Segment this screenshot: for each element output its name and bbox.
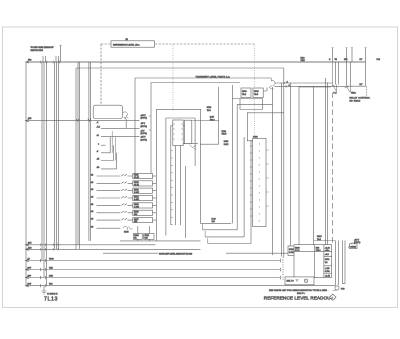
connector stub P3 above bus A [60, 46, 62, 63]
svg-text:P50: P50 [341, 288, 344, 290]
svg-text:U730: U730 [254, 91, 259, 93]
nested loop bottom rung 4 [208, 243, 251, 245]
nested loop L1 [157, 109, 201, 241]
table column line 1 [314, 245, 316, 278]
wire vertical x290 [290, 83, 292, 247]
connector arrow V1 on mid wire [76, 119, 79, 122]
svg-text:(DCPL): (DCPL) [141, 117, 148, 119]
wire box bottoms link [183, 143, 198, 145]
ic U730A box [241, 88, 251, 98]
node A1 arrow label [284, 82, 286, 84]
lamp P50 circle [335, 286, 339, 290]
svg-text:TA-5: TA-5 [207, 109, 211, 112]
wire vertical bus x78 [77, 62, 79, 245]
wire dashed x366 [366, 86, 368, 98]
wire ladder row out 198 [153, 197, 157, 199]
svg-text:2-7-6: 2-7-6 [295, 250, 299, 252]
resistor R751 bottom box [144, 234, 154, 240]
svg-text:+6.4B: +6.4B [325, 276, 331, 278]
loop rectangle R2 top [135, 77, 271, 79]
svg-text:7L13: 7L13 [44, 297, 58, 303]
wire ladder row out 212.8 [153, 212, 157, 214]
screw symbol in MNL box [304, 279, 307, 282]
svg-text:TB-1: TB-1 [242, 94, 246, 96]
wire staircase step 2 [101, 145, 113, 160]
wire ladder row 8 [97, 227, 121, 229]
nested loop top rung right [237, 105, 272, 230]
svg-text:TB-5: TB-5 [254, 94, 258, 96]
wire ladder row 4 [97, 196, 133, 198]
resistor R746 [133, 210, 153, 215]
connector pins J1 on bottom rows [40, 259, 46, 262]
wire stub to R751 [149, 226, 151, 241]
svg-text:-60: -60 [91, 211, 94, 213]
connector arcs row A10 [40, 248, 58, 251]
wire driver line A2 [275, 85, 347, 87]
nested loop bottom rung 2 [202, 229, 237, 231]
readout box REFERENCE LEVEL dBm [111, 41, 155, 47]
resistor R750 bottom box [133, 234, 142, 240]
connector P701 right of bottom rows [279, 259, 282, 280]
svg-text:-20: -20 [91, 182, 94, 184]
nested loop right riser x272 [272, 87, 274, 255]
wire arrowhead mid horizontal [26, 119, 30, 121]
loop rectangle R1 right edge [283, 68, 285, 257]
switch S5 dashed shaft to pot [172, 44, 174, 110]
wire row B73 [26, 244, 156, 246]
wire vertical x185 [184, 166, 186, 238]
wire staircase riser x112 [111, 131, 113, 153]
node A2 arrow label [286, 85, 288, 87]
table column line 2 [323, 245, 325, 278]
ic U950 left pins [250, 146, 253, 216]
wire vertical bus x79.5 [79, 62, 81, 249]
wire row A10 [26, 248, 201, 250]
svg-text:S: S [329, 59, 331, 61]
svg-text:(DCPL): (DCPL) [141, 139, 148, 141]
ground mark in MNL box [296, 279, 299, 281]
svg-text:A7: A7 [28, 257, 30, 260]
resistor R744 [133, 195, 153, 200]
wire pair bottom close [342, 283, 345, 285]
wire ladder row 5 [97, 204, 133, 206]
wire ladder row out 205.4 [153, 204, 157, 206]
svg-text:TS4: TS4 [49, 284, 52, 286]
wire ladder row out 183.4 [153, 182, 157, 184]
svg-text:U730: U730 [207, 107, 212, 109]
resistor R910 box [288, 246, 298, 256]
switch S5 dashed vertical left [100, 44, 102, 105]
ground stub [43, 286, 45, 291]
loop rectangle R1 left edge [75, 68, 77, 250]
svg-text:-30: -30 [91, 189, 94, 191]
svg-text:-50: -50 [91, 204, 94, 206]
wire arrowhead left of bus A [26, 61, 30, 63]
potentiometer R700 rounded body [93, 105, 122, 118]
svg-text:(DCPL): (DCPL) [141, 133, 148, 135]
wire driver line A1 [275, 82, 333, 84]
wire vertical bus x46 [45, 62, 47, 286]
wire bottom row 1 [26, 259, 281, 261]
svg-text:13.7K: 13.7K [134, 185, 140, 187]
wire sub box under U730 [232, 99, 263, 110]
wire horizontal into x218 [200, 143, 219, 145]
svg-text:+15 V: +15 V [354, 240, 360, 242]
wire ladder row 3 [97, 189, 133, 191]
potentiometer R748 wiper symbols [123, 226, 133, 230]
wire bottom row 4 ground bus [26, 285, 336, 287]
svg-text:U950: U950 [253, 136, 258, 138]
svg-text:785-6: 785-6 [222, 134, 227, 136]
svg-text:Q-30: Q-30 [210, 117, 214, 119]
table header row line [294, 250, 332, 252]
svg-text:R908: R908 [295, 247, 300, 249]
svg-text:NOTE: REF LEVEL READOUT BD A10: NOTE: REF LEVEL READOUT BD A10 [159, 252, 192, 255]
ic U736 box [185, 120, 192, 144]
svg-text:DSB: DSB [49, 275, 54, 277]
loop rectangle R3 top [151, 82, 240, 84]
wire vertical pair x335 [335, 62, 338, 285]
svg-text:TB5w: TB5w [351, 93, 356, 95]
resistor R742 [133, 181, 153, 186]
svg-text:A5P: A5P [28, 274, 32, 277]
nested loop L2 [166, 118, 195, 236]
svg-text:U730: U730 [242, 91, 247, 93]
wire corner into U950 [247, 113, 283, 141]
resistor R743 [133, 188, 153, 193]
connector box MNL bottom [285, 277, 314, 285]
nested loop bottom rung 3 [205, 236, 244, 238]
transistor Q730 [269, 78, 275, 89]
wire bottom row 2 [26, 268, 281, 270]
wire ladder row 2 [97, 182, 133, 184]
connector stubs above bus A right [333, 48, 366, 86]
loop rectangle R1 top edge [76, 67, 284, 69]
svg-text:B W: B W [28, 284, 32, 286]
svg-text:1: 1 [332, 297, 333, 299]
wire R3 left drop [150, 83, 152, 174]
svg-text:D-DR: D-DR [289, 252, 294, 254]
wire vertical bus x89 [88, 62, 90, 241]
svg-text:500: 500 [145, 238, 148, 240]
wire ladder row 7 [97, 218, 133, 220]
svg-text:P10: P10 [377, 59, 380, 61]
wire under ladder [120, 240, 201, 242]
svg-text:-70: -70 [91, 219, 94, 221]
wire vertical x299 [298, 87, 300, 245]
switch S5 dashed line top [101, 43, 255, 45]
wire vertical bus x90.5 [89, 62, 91, 241]
svg-text:786-1: 786-1 [316, 250, 321, 252]
wire ladder row out 190.7 [153, 190, 157, 192]
connector arcs row B73 [40, 243, 58, 246]
wire vertical bus x44 [43, 62, 45, 278]
svg-text:-5: -5 [97, 151, 99, 153]
svg-text:A10: A10 [28, 246, 31, 249]
svg-text:TB: TB [335, 59, 338, 61]
svg-text:RELAY CONTROL: RELAY CONTROL [350, 97, 371, 100]
svg-text:-15: -15 [97, 159, 100, 161]
wire staircase riser x115 [114, 137, 116, 161]
transistor Q736 arrow [189, 145, 196, 150]
wire ladder row 6 [97, 211, 133, 213]
table R908 outer box [294, 245, 332, 278]
svg-text:R910: R910 [289, 249, 294, 251]
svg-text:B73: B73 [28, 243, 31, 245]
wire vertical bus x42 [41, 62, 43, 261]
svg-text:TO REF LEVEL READOUT: TO REF LEVEL READOUT [31, 46, 55, 49]
svg-text:F10: F10 [28, 118, 31, 120]
table right col rows [324, 257, 332, 274]
svg-text:7p5: 7p5 [212, 221, 215, 223]
svg-text:+90u: +90u [325, 250, 329, 252]
svg-text:+5: +5 [97, 135, 99, 137]
svg-text:MNL 7 0: MNL 7 0 [287, 281, 294, 283]
connector arrow V2 on mid wire [88, 119, 91, 122]
wire vertical x327 [327, 83, 329, 245]
ic U735 box with pins [173, 120, 183, 146]
svg-text:3.48K: 3.48K [134, 199, 140, 201]
wire arrow to C1022 [349, 243, 353, 249]
connector stub P1 above bus A [43, 56, 46, 62]
wire supply row 2 [101, 136, 140, 138]
svg-text:U-30: U-30 [212, 219, 216, 221]
svg-text:BD READ: BD READ [350, 100, 361, 103]
svg-text:D-DX: D-DX [224, 144, 229, 146]
svg-text:7405: 7405 [301, 60, 305, 62]
wire vertical x346 pair below A [346, 62, 350, 86]
svg-text:R748: R748 [124, 232, 129, 234]
nested loop right riser x281 [280, 83, 282, 257]
wire staircase step 3 [101, 153, 116, 169]
svg-text:TO PIN B W: TO PIN B W [47, 294, 58, 296]
wire vertical x251 [250, 140, 252, 244]
wire main horizontal bus A [26, 61, 366, 63]
svg-text:P.P: P.P [360, 59, 364, 61]
svg-text:+1.63: +1.63 [325, 247, 330, 249]
wire staircase step 1 [101, 137, 110, 153]
svg-text:-80: -80 [91, 227, 94, 229]
wire vertical bus x26 [25, 62, 27, 286]
wire bottom row 3 [26, 276, 281, 278]
svg-text:P-2: P-2 [334, 93, 337, 95]
svg-text:RAC: RAC [301, 57, 306, 60]
wire vertical bus x54 [54, 62, 56, 249]
wire ladder row 1 [97, 174, 133, 176]
svg-text:-10: -10 [91, 174, 94, 176]
svg-text:432: 432 [134, 221, 137, 223]
ic U730B box [253, 88, 263, 98]
wire vertical bus x56 [55, 62, 57, 249]
wire U735 drop2 [180, 146, 182, 226]
wire vertical x232 [232, 85, 234, 223]
svg-text:277A: 277A [325, 258, 330, 261]
ground symbol [42, 291, 47, 294]
svg-text:F10: F10 [28, 60, 31, 62]
relay contact K1b [345, 86, 351, 92]
wire stub to R750 [137, 226, 139, 241]
ic U950 tall box [253, 139, 267, 227]
ic U950 right pins [266, 150, 269, 206]
switch S5 dashed vertical right [254, 44, 256, 226]
svg-text:6.98K: 6.98K [134, 192, 140, 194]
svg-text:-6.2B: -6.2B [325, 268, 330, 270]
potentiometer wiper curl [123, 112, 129, 119]
relay contact K1a [331, 62, 337, 93]
resistor R745 [133, 203, 153, 208]
wire note bus [103, 252, 288, 254]
connector stub P2 above bus A [56, 56, 58, 62]
svg-text:-50: -50 [97, 167, 100, 169]
wire vertical x246 [243, 137, 245, 237]
svg-text:TRANSIENT LEVEL PARTS A,A: TRANSIENT LEVEL PARTS A,A [196, 75, 231, 78]
wire ladder row out 220.1 [153, 219, 157, 221]
diamond revision mark [330, 294, 337, 300]
wire vertical pair x342 [342, 241, 345, 284]
wire U735 drop [175, 146, 177, 226]
wire supply row 1 [101, 127, 140, 129]
svg-text:TQ5: TQ5 [49, 267, 53, 269]
wire ladder row out 176 [153, 175, 157, 177]
svg-text:2.7Kv: 2.7Kv [325, 271, 330, 273]
svg-text:SWITCH S700: SWITCH S700 [31, 50, 43, 52]
ic U950 pin dots [258, 144, 260, 222]
wire relay bar [347, 85, 366, 87]
svg-text:-40: -40 [91, 196, 94, 198]
svg-text:-7.5: -7.5 [97, 126, 100, 128]
svg-text:o: o [98, 143, 99, 145]
svg-text:R63: R63 [316, 247, 319, 249]
capacitor C1022 box [350, 244, 358, 249]
wire tick after parts text [333, 289, 338, 291]
svg-text:S701 P L: S701 P L [297, 293, 305, 295]
svg-text:R910: R910 [317, 236, 322, 238]
relay line K1 [299, 86, 331, 88]
wire mid horizontal F10 [26, 120, 140, 122]
svg-text:866: 866 [134, 214, 137, 216]
svg-text:27.4K: 27.4K [134, 177, 140, 179]
wire Q730 base link [263, 88, 267, 92]
svg-text:SEE PARTS LIST FOR SEMICONDUCT: SEE PARTS LIST FOR SEMICONDUCTOR TYPES A… [269, 289, 328, 292]
wire staircase stub row 145 [101, 144, 106, 146]
nested loop bottom rung 1 [200, 222, 231, 224]
wire U736 out [193, 120, 219, 122]
svg-text:C1022: C1022 [350, 246, 356, 248]
wire vertical bus x58 [58, 62, 60, 249]
svg-text:+9.8: +9.8 [325, 254, 329, 256]
svg-text:B73: B73 [344, 59, 347, 61]
wire vertical x324 [324, 78, 326, 245]
svg-text:(DCPL): (DCPL) [141, 126, 148, 128]
pin ticks on R3 drop [149, 116, 151, 130]
wire vertical x218 [218, 87, 220, 144]
connector arcs on bus A [40, 61, 60, 64]
svg-text:B.T: B.T [360, 84, 364, 86]
wire R2 left drop [134, 78, 136, 173]
nested loop bottoms left risers [202, 224, 207, 244]
resistor R741 [133, 173, 153, 178]
wire pot wiper drop [125, 121, 127, 129]
svg-text:REFERENCE LEVEL dBm: REFERENCE LEVEL dBm [113, 44, 140, 46]
svg-text:REFERENCE LEVEL READOUT: REFERENCE LEVEL READOUT [264, 296, 334, 301]
svg-text:B W: B W [28, 267, 32, 269]
wire vertical x200 down [200, 109, 202, 223]
svg-text:-2: -2 [97, 122, 99, 124]
resistor R747 [133, 218, 153, 223]
wire dashed x332 lower [332, 93, 334, 245]
potentiometer wiper arrow [124, 117, 127, 120]
svg-text:TP10: TP10 [49, 258, 54, 260]
wire table top link [314, 240, 336, 242]
wire vertical x313 [313, 87, 315, 245]
svg-text:1.74K: 1.74K [134, 207, 140, 209]
nested loop L3 with pin ticks [171, 126, 185, 225]
